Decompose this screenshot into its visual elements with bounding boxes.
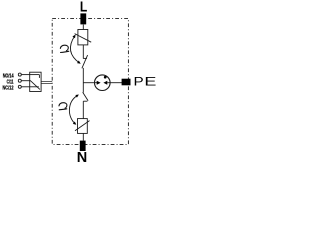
wire gas discharge tube to PE terminal [110,82,122,84]
terminal L [80,13,86,24]
wire L terminal to varistor RV1 [82,25,84,30]
terminal circle NC/12 [18,85,21,88]
wire C to contact box [21,80,31,82]
wire bottom disconnector to varistor RV2 [82,101,84,118]
mechanical linkage double line [41,82,52,84]
fixed contact seat (bottom disconnector) [83,100,87,102]
disconnection direction arrow arc (bottom), double headed [69,95,79,125]
gas discharge tube GDT [95,75,111,91]
varistor RV2 (bottom MOV) [75,119,90,134]
remote signalling changeover contact box [30,72,41,91]
thermal response hook symbol (top) [60,45,69,52]
varistor RV1 (top MOV) [75,30,92,45]
terminal PE [122,79,131,86]
svg-text:N: N [77,150,87,166]
wire NO to contact box [21,74,29,76]
terminal circle C/11 [18,79,21,82]
disconnection direction arrow arc (top), double headed [70,35,80,64]
thermal disconnector blade (bottom) [83,92,88,100]
wire NC to contact box [21,86,29,88]
svg-text:L: L [80,0,87,15]
wire varistor RV1 to disconnector contact [82,45,84,59]
fixed contact seat (top disconnector) [83,57,87,59]
svg-text:P: P [134,74,144,88]
svg-text:E: E [144,74,156,88]
svg-text:NO/14: NO/14 [3,73,14,79]
wire top disconnector to node A [82,68,84,93]
enclosure (dash-dot SPD boundary) [52,19,128,145]
svg-text:C/11: C/11 [7,80,14,86]
terminal circle NO/14 [18,73,21,76]
wire varistor RV2 to N terminal [82,133,84,140]
svg-text:NC/12: NC/12 [3,86,14,92]
thermal response hook symbol (bottom) [59,103,67,110]
thermal disconnector blade (top) [82,55,88,68]
wire node A to gas discharge tube [83,82,94,84]
terminal N [80,141,86,151]
